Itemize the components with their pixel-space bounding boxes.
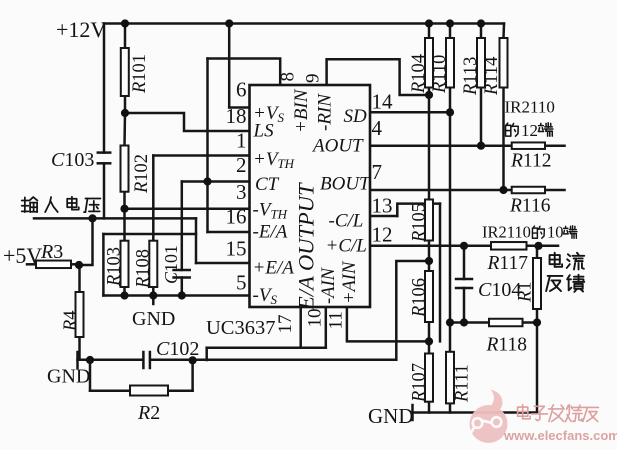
wire R102 bottom lead to -VTH row (123, 192, 126, 209)
label input voltage 输入电压 (22, 197, 38, 212)
svg-text:-RIN: -RIN (315, 93, 336, 131)
wire R2 loop right riser (191, 360, 194, 391)
wire R105 bottom to R106 top (428, 241, 431, 272)
wire pin 9 -RIN loop to R104 bottom (327, 59, 429, 95)
wire input voltage row (34, 217, 196, 220)
svg-text:R107: R107 (410, 363, 430, 403)
svg-text:R104: R104 (409, 54, 429, 94)
wire AOUT row after R112 (545, 144, 565, 147)
svg-text:R114: R114 (482, 57, 502, 96)
node +12V/R101 (121, 19, 129, 27)
svg-text:+AIN: +AIN (340, 260, 360, 304)
svg-text:C102: C102 (156, 338, 199, 360)
wire pin 10 -AIN drop (325, 307, 328, 348)
watermark logo circle (467, 390, 508, 444)
svg-text:C101: C101 (161, 245, 181, 284)
wire drop from pins 17/10 row to C102 row (205, 348, 208, 360)
resistor R102 (121, 146, 129, 192)
wire pin 4 AOUT row to R112 (370, 144, 512, 147)
svg-text:www.elecfans.com: www.elecfans.com (503, 428, 617, 443)
svg-text:R105: R105 (410, 203, 430, 243)
svg-text:R110: R110 (430, 55, 450, 94)
wire pin 2 CT row (182, 180, 250, 183)
wire R2 row (90, 389, 130, 392)
wire BOUT row after R116 (545, 189, 565, 192)
wire R2 loop left riser (89, 360, 92, 391)
svg-text:R102: R102 (132, 154, 152, 194)
wire pin 11 +AIN loop to R106/R107 junction (347, 307, 429, 341)
node R110/R118 row (446, 318, 454, 326)
wire R107 bottom lead to GND row (428, 402, 431, 413)
wire riser from R3 node to input row (79, 218, 93, 265)
resistor R107 (425, 354, 433, 402)
wire bottom GND terminal bar (411, 405, 414, 420)
svg-text:BOUT: BOUT (320, 174, 371, 195)
op-amp/IC U1 UC3637 body (250, 85, 371, 307)
wire pin 7 BOUT row to R116 (370, 189, 512, 192)
svg-text:14: 14 (372, 90, 394, 114)
resistor R105 (425, 200, 433, 241)
node R102/R103 -VTH (120, 205, 128, 213)
svg-text:IR2110: IR2110 (505, 98, 555, 117)
node SD/R110 (446, 108, 454, 116)
wire R102 top lead (123, 113, 126, 146)
node +C/L row/C104 (460, 242, 468, 250)
resistor R110 (446, 38, 454, 88)
svg-text:E/A OUTPUT: E/A OUTPUT (294, 182, 319, 311)
wire pin 13 -C/L stub (370, 215, 397, 218)
svg-text:+BIN: +BIN (291, 88, 312, 133)
wire R108 bottom lead (152, 287, 155, 296)
wire frame left drop to GND row (102, 234, 105, 296)
svg-text:15: 15 (226, 237, 247, 261)
wire R1 bottom lead (536, 309, 539, 323)
svg-text:6: 6 (236, 78, 247, 102)
svg-text:C103: C103 (51, 149, 94, 171)
resistor R116 (512, 187, 545, 194)
svg-text:-C/L: -C/L (329, 211, 364, 232)
wire R114 bottom lead to BOUT row (502, 88, 505, 191)
svg-text:R118: R118 (486, 335, 527, 356)
wire R106 bottom to R107 top (428, 322, 431, 354)
node CT junction (203, 177, 211, 185)
svg-text:R3: R3 (40, 241, 63, 263)
resistor R113 (477, 38, 485, 88)
wire R113 top lead (480, 24, 483, 39)
watermark text 电子发烧友 (518, 405, 531, 419)
svg-text:R116: R116 (509, 196, 551, 217)
node +12V/pin6 drop (225, 19, 233, 27)
node -RIN/R104 (425, 91, 433, 99)
node +C/L row/R1 (534, 242, 542, 250)
wire R110 top lead (449, 24, 452, 39)
wire pin 12 +C/L row (370, 245, 558, 248)
svg-text:+C/L: +C/L (326, 236, 367, 257)
wire -E/A riser from +BIN wire down to pin 16 (206, 59, 209, 233)
resistor R1 (533, 258, 541, 309)
svg-text:R112: R112 (510, 151, 551, 172)
svg-text:R108: R108 (134, 249, 154, 289)
node R101/R102 LS (121, 109, 129, 117)
node input row/+5V riser (88, 214, 96, 222)
node C102 row/R2 left (86, 356, 94, 364)
resistor R2 (130, 386, 168, 396)
svg-text:+E/A: +E/A (253, 258, 295, 279)
svg-text:IR2110: IR2110 (482, 223, 531, 242)
wire R1 top lead (536, 246, 539, 258)
wire pin 15 +E/A stub (196, 262, 250, 265)
svg-text:R4: R4 (61, 310, 81, 332)
wire +12V drop to pin 6 +Vs (228, 24, 231, 108)
wire R4 bottom lead (78, 337, 81, 360)
svg-text:5: 5 (236, 271, 247, 295)
resistor R108 (149, 241, 157, 287)
wire rail corner down to R114 (502, 24, 505, 39)
wire bottom GND row (413, 411, 538, 414)
svg-text:GND: GND (47, 366, 90, 388)
resistor R104 (425, 38, 433, 88)
wire R104 bottom to R105 top (428, 88, 431, 200)
wire R103 bottom lead to GND row (123, 287, 126, 296)
wire pin 6 stub (229, 106, 249, 109)
svg-text:R106: R106 (410, 278, 430, 318)
node GND/R108 (149, 291, 157, 299)
svg-text:10: 10 (305, 309, 326, 328)
wire +5V lead to R3 (27, 263, 36, 266)
wire input row drop to +E/A stub (195, 218, 198, 263)
wire pin 14 SD row to R110 (370, 111, 450, 114)
wire C104 bottom lead (463, 288, 466, 323)
node R106/R107/+AIN (425, 337, 433, 345)
svg-text:C104: C104 (478, 279, 521, 301)
svg-text:R2: R2 (137, 402, 160, 424)
svg-text:+12V: +12V (56, 17, 106, 42)
svg-text:12: 12 (372, 223, 393, 247)
resistor R112 (512, 142, 545, 149)
wire R2 row right part (168, 389, 193, 392)
svg-text:R101: R101 (130, 54, 150, 94)
node GND/R103 (120, 291, 128, 299)
wire CT to C101 top (181, 182, 184, 271)
wire R3 to node (71, 263, 79, 266)
svg-text:+5V: +5V (3, 243, 42, 268)
node GND/C101 (178, 291, 186, 299)
wire +12V top rail (104, 22, 504, 25)
capacitor C104 (456, 279, 472, 288)
svg-text:UC3637: UC3637 (206, 317, 275, 339)
svg-text:SD: SD (344, 106, 368, 127)
svg-text:-AIN: -AIN (319, 266, 339, 304)
resistor R117 (491, 242, 527, 250)
svg-text:LS: LS (253, 121, 275, 142)
wire drop from R1 to bottom GND row (536, 323, 539, 413)
wire R110 bottom long drop to R111 (449, 88, 452, 352)
wire pin 18 LS connection to R101/R102 junction (125, 113, 250, 131)
wire R104 top lead (428, 24, 431, 39)
wire C102 row right segment (151, 358, 396, 361)
wire pin 17 E/A OUT drop (299, 307, 302, 348)
label 的12端 (upper) (506, 123, 519, 136)
wire R108 top lead up to +VTH row (152, 156, 155, 241)
resistor R101 (121, 48, 129, 96)
svg-text:GND: GND (368, 404, 414, 428)
node BOUT/R114 (499, 186, 507, 194)
svg-text:4: 4 (372, 116, 383, 140)
svg-text:2: 2 (236, 153, 247, 177)
wire pin 13 loop up to R105 top (397, 204, 440, 216)
label 反馈 feedback (546, 276, 562, 291)
svg-text:17: 17 (275, 315, 296, 334)
wire drop from -C/L loop to +AIN row (439, 204, 442, 342)
resistor R103 (121, 241, 129, 287)
svg-text:AOUT: AOUT (311, 136, 364, 157)
resistor R4 (76, 292, 84, 337)
wire R118 row (450, 321, 537, 324)
wire C104 top lead (463, 246, 466, 279)
wire pin 3 -VTH row (125, 207, 250, 210)
node +12V/R113 (477, 19, 485, 27)
svg-text:11: 11 (326, 311, 347, 329)
svg-text:10: 10 (547, 223, 564, 242)
wire left GND terminal bar (76, 352, 79, 368)
svg-text:GND: GND (132, 308, 175, 330)
wire R101 bottom to node LS junction (124, 96, 127, 113)
node R118 row/R1 (533, 318, 541, 326)
wire riser from C102 row to R105/R106 junction (396, 261, 429, 360)
wire frame under input row (103, 233, 196, 236)
wire pin 1 +VTH row (153, 154, 249, 157)
node R3/R4 (75, 261, 83, 269)
capacitor C102 (143, 352, 150, 368)
node C102 row/R2 right (189, 356, 197, 364)
wire GND row / pin 5 -Vs stub (103, 294, 249, 297)
svg-text:3: 3 (236, 180, 247, 204)
wire pins 17/10 row (207, 346, 326, 349)
node R118 row/C104 (460, 318, 468, 326)
svg-text:R113: R113 (461, 57, 481, 96)
svg-text:13: 13 (372, 194, 393, 218)
label 电流 current (550, 253, 563, 267)
svg-text:R103: R103 (105, 247, 125, 287)
wire R113 bottom lead to AOUT row (480, 88, 483, 146)
wire pin 16 -E/A stub (208, 231, 250, 234)
node +12V/R104 (425, 19, 433, 27)
node +12V/R110 (446, 19, 454, 27)
svg-text:16: 16 (226, 205, 247, 229)
resistor R106 (425, 271, 433, 322)
svg-text:-E/A: -E/A (253, 222, 288, 243)
resistor R3 (36, 261, 71, 269)
svg-text:18: 18 (226, 104, 247, 128)
svg-text:R111: R111 (453, 364, 473, 403)
capacitor C103 (98, 153, 110, 164)
svg-text:9: 9 (303, 74, 324, 84)
svg-text:R117: R117 (487, 253, 529, 274)
capacitor C101 (174, 270, 190, 278)
svg-text:7: 7 (372, 160, 383, 184)
resistor R118 (489, 319, 523, 327)
wire R4 top lead (78, 265, 81, 292)
wire C102 row left segment (78, 358, 143, 361)
wire pin 8 +BIN loop (208, 59, 281, 86)
wire R101 top lead (124, 24, 127, 49)
wire left rail from +12V down to C103 (103, 24, 106, 153)
svg-text:1: 1 (236, 129, 247, 153)
wire C101 bottom lead (181, 278, 184, 296)
wire GND stub below row (152, 296, 155, 305)
wire C103 bottom lead to input-voltage row (103, 163, 106, 218)
node R105/R106 (425, 257, 433, 265)
resistor R111 (446, 352, 454, 404)
svg-text:CT: CT (255, 174, 280, 195)
svg-text:8: 8 (278, 72, 299, 82)
svg-text:12: 12 (521, 121, 538, 140)
wire R103 top lead (123, 209, 126, 241)
node AOUT/R113 (477, 142, 485, 150)
wire R111 bottom lead to GND row (449, 403, 452, 412)
resistor R114 (500, 38, 508, 88)
